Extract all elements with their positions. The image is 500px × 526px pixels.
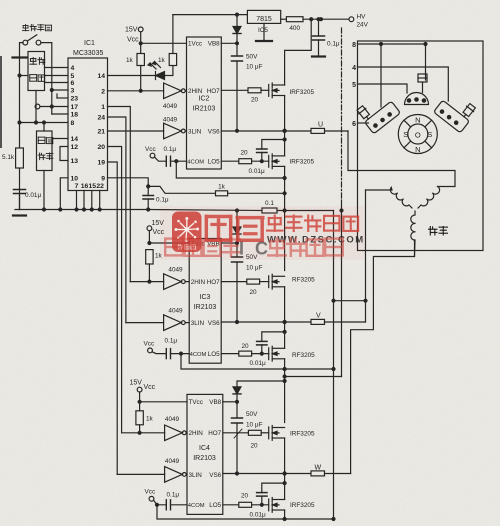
wire 4COM Vcc entry IC3 xyxy=(148,348,190,359)
svg-text:23: 23 xyxy=(71,96,79,103)
long vertical wire pin1 xyxy=(108,107,131,282)
motor enclosure box xyxy=(358,41,484,251)
svg-text:IC4: IC4 xyxy=(199,445,210,452)
svg-text:1k: 1k xyxy=(218,184,226,191)
svg-text:IR2103: IR2103 xyxy=(193,455,216,462)
watermark 电子市场网 xyxy=(266,215,359,233)
IC2 IR2103 body xyxy=(187,37,222,169)
svg-text:13: 13 xyxy=(71,158,79,165)
wire to inverter F xyxy=(117,473,164,475)
svg-text:1k: 1k xyxy=(158,57,166,64)
ground symbol xyxy=(13,214,26,216)
svg-text:10: 10 xyxy=(71,175,79,182)
svg-text:6: 6 xyxy=(352,121,356,128)
diode bootstrap IC4 xyxy=(233,380,286,402)
svg-text:19: 19 xyxy=(97,160,105,167)
svg-text:0.1μ: 0.1μ xyxy=(327,41,340,48)
svg-text:5: 5 xyxy=(352,82,356,89)
capacitor 0.01u (W low gate) xyxy=(257,482,287,505)
svg-text:Vcc: Vcc xyxy=(145,146,156,153)
wire V lower rail xyxy=(283,375,341,378)
node 15V Vcc terminal mid xyxy=(147,226,152,245)
svg-text:14: 14 xyxy=(97,73,105,80)
svg-text:24V: 24V xyxy=(357,22,369,29)
rotor magnet xyxy=(398,115,437,154)
wire V column xyxy=(284,287,286,423)
svg-text:N: N xyxy=(415,116,420,125)
watermark logo box xyxy=(172,212,202,253)
svg-text:VB8: VB8 xyxy=(209,399,221,406)
IC3 pin labels xyxy=(190,241,207,359)
wire to inverter E xyxy=(122,432,165,434)
svg-text:14: 14 xyxy=(71,136,79,143)
node V with series link xyxy=(285,319,366,324)
svg-text:20: 20 xyxy=(241,493,249,500)
svg-text:N: N xyxy=(415,145,420,154)
svg-text:IRF3205: IRF3205 xyxy=(290,502,315,509)
capacitor bootstrap 10uF 50V IC4 xyxy=(232,402,243,475)
wire 4COM Vcc entry IC4 xyxy=(149,496,187,509)
wire source rail W (bottom) xyxy=(157,505,335,521)
svg-text:VS6: VS6 xyxy=(208,320,220,327)
svg-text:TVcc: TVcc xyxy=(189,399,203,406)
inverter 4049 E xyxy=(165,425,187,441)
svg-text:15: 15 xyxy=(89,183,97,190)
transistor Q5 IRF3205 W-high xyxy=(269,426,285,441)
svg-text:2HIN: 2HIN xyxy=(191,279,206,286)
wire VBB IC3 xyxy=(221,242,238,245)
wire throttle top xyxy=(43,121,46,131)
svg-text:2HIN: 2HIN xyxy=(188,88,203,95)
wire pin10 to ground rail xyxy=(59,178,68,211)
svg-text:24: 24 xyxy=(97,115,105,122)
svg-text:4049: 4049 xyxy=(163,117,178,124)
svg-text:Vcc: Vcc xyxy=(127,37,139,44)
svg-text:IC1: IC1 xyxy=(84,40,95,47)
svg-text:3LIN: 3LIN xyxy=(189,472,203,479)
svg-text:4049: 4049 xyxy=(168,308,183,315)
svg-text:RF3205: RF3205 xyxy=(292,277,315,284)
wire VS6 IC3 to V node xyxy=(221,320,286,323)
svg-text:MC33035: MC33035 xyxy=(73,50,103,57)
svg-text:LO5: LO5 xyxy=(208,351,220,358)
svg-text:2: 2 xyxy=(101,88,105,95)
svg-text:20: 20 xyxy=(250,443,258,450)
hall sensor left xyxy=(356,90,401,134)
inverter 4049 B xyxy=(164,123,187,139)
svg-text:400: 400 xyxy=(289,25,300,32)
watermark 全球最大 IC 采购网站 xyxy=(164,237,344,259)
hall feed rail 8 xyxy=(358,43,428,108)
wire VB8 xyxy=(221,42,238,45)
svg-text:IR2103: IR2103 xyxy=(194,304,217,311)
svg-text:IC3: IC3 xyxy=(200,294,211,301)
svg-text:VS6: VS6 xyxy=(209,472,221,479)
wire U-low drain/source column xyxy=(284,131,286,271)
svg-text:RF3205: RF3205 xyxy=(292,352,315,359)
resistor 5.1k xyxy=(16,148,24,168)
wire Vcc rail IC4 xyxy=(140,401,187,403)
svg-text:8: 8 xyxy=(71,120,75,127)
wire LO5 IC4 xyxy=(223,504,239,506)
wire LO5 to gate resistor xyxy=(221,160,239,162)
riser W phase xyxy=(351,240,415,474)
wire Vcc rail IC3 xyxy=(149,242,189,244)
wire W column xyxy=(284,438,286,519)
wire U-high drain to HV rail xyxy=(285,19,312,85)
riser V to winding xyxy=(364,190,367,322)
node 15V Vcc terminal top xyxy=(138,27,143,45)
hall net labels 8 4 5 6 xyxy=(352,42,356,128)
svg-text:4049: 4049 xyxy=(163,103,178,110)
svg-text:0.1μ: 0.1μ xyxy=(167,492,180,499)
svg-text:V: V xyxy=(316,313,321,320)
svg-text:1k: 1k xyxy=(146,416,154,423)
wire throttle to pin14 xyxy=(52,138,68,140)
svg-text:17: 17 xyxy=(71,104,79,111)
svg-text:VB8: VB8 xyxy=(208,41,220,48)
ground rail bottom-left xyxy=(15,209,148,211)
capacitor 0.01u (V low gate) xyxy=(257,330,287,353)
transistor Q3 IRF3205 V-high xyxy=(269,274,285,289)
inverter 4049 C xyxy=(164,274,190,290)
svg-text:2HIN: 2HIN xyxy=(189,430,204,437)
wire LO5 IC3 xyxy=(221,353,239,355)
IC1 bottom pin drops 7 16 15 22 xyxy=(75,191,101,212)
wire 4COM Vcc entry IC2 xyxy=(150,153,186,166)
svg-text:3LIN: 3LIN xyxy=(191,320,205,327)
resistor 20 (W high gate) xyxy=(248,430,268,435)
IC3 IR2103 body xyxy=(189,239,221,364)
svg-text:21: 21 xyxy=(97,129,105,136)
wire HO7 IC4 xyxy=(223,429,249,438)
IC1 pin numbers left xyxy=(71,65,79,182)
wire U-high source to U node xyxy=(284,96,286,131)
motor winding Y xyxy=(366,187,440,257)
wire hall box left lead xyxy=(18,74,28,77)
label 制动刹车 xyxy=(22,24,52,31)
svg-text:Vcc: Vcc xyxy=(144,341,155,348)
svg-text:HO7: HO7 xyxy=(208,430,221,437)
resistor 1k (LED) xyxy=(169,15,176,76)
label 电机霍尔 in box xyxy=(29,57,45,82)
IC1 pin numbers right xyxy=(97,73,105,182)
svg-text:0.01μ: 0.01μ xyxy=(25,192,41,199)
wire pin14(right) to LED xyxy=(108,75,156,77)
LED D1 xyxy=(148,62,173,80)
svg-text:4049: 4049 xyxy=(165,458,180,465)
svg-text:HO7: HO7 xyxy=(207,279,220,286)
svg-text:0.1μ: 0.1μ xyxy=(165,338,178,345)
wire pin3 stub xyxy=(50,89,68,92)
svg-text:4COM: 4COM xyxy=(188,503,205,509)
motor hall box 电机霍尔 xyxy=(28,52,45,91)
wire source rail U xyxy=(176,161,286,179)
svg-text:4049: 4049 xyxy=(168,267,183,274)
capacitor 0.01u (U low gate) xyxy=(257,138,287,161)
wire to inverter C xyxy=(130,281,163,283)
node pin17 terminal xyxy=(35,104,68,109)
svg-text:0.1μ: 0.1μ xyxy=(156,197,169,204)
node HV 24V terminal xyxy=(349,17,354,22)
wire throttle bottom to ground rail xyxy=(43,171,46,212)
wire pin21 to inverter xyxy=(108,130,164,132)
svg-text:1: 1 xyxy=(101,104,105,111)
svg-text:20: 20 xyxy=(241,343,249,350)
resistor 20 (V low gate) xyxy=(239,351,269,356)
diode bootstrap IC3 xyxy=(233,209,241,243)
node U with series link xyxy=(285,128,348,133)
transistor Q4 IRF3205 V-low xyxy=(269,346,285,361)
svg-text:U: U xyxy=(318,122,323,129)
hall sensor middle xyxy=(405,72,429,105)
riser V-return xyxy=(340,200,343,377)
wire source rail V xyxy=(181,354,335,371)
IC4 pin labels xyxy=(188,399,205,509)
svg-text:IRF3205: IRF3205 xyxy=(290,89,315,96)
svg-text:HO7: HO7 xyxy=(207,88,220,95)
svg-text:5: 5 xyxy=(71,73,75,80)
svg-text:S: S xyxy=(403,130,408,139)
svg-text:0.01μ: 0.01μ xyxy=(250,512,266,519)
svg-text:0.1μ: 0.1μ xyxy=(164,146,177,153)
wire HO7 to gate resistor xyxy=(221,89,248,91)
regulator 7815 IC5 xyxy=(247,10,280,23)
wire U jog to motor xyxy=(348,131,455,187)
svg-text:9: 9 xyxy=(101,175,105,182)
node W with series link xyxy=(285,471,351,476)
wires hall box to pins 4,5,6 xyxy=(45,68,69,83)
label 马达 motor xyxy=(428,226,448,236)
svg-text:IC5: IC5 xyxy=(258,27,268,34)
svg-text:4COM: 4COM xyxy=(190,352,207,358)
resistor 400 xyxy=(281,17,349,22)
svg-text:20: 20 xyxy=(249,289,257,296)
wire pin23 stub xyxy=(57,94,68,98)
wire pin8 xyxy=(18,121,68,124)
wire pin2 to inverter xyxy=(108,90,164,92)
wire VS6 to U node xyxy=(221,129,286,132)
long vertical wire pin19 xyxy=(108,162,118,474)
rotor pole labels N S O S N xyxy=(403,116,432,155)
resistor 20 (W low gate) xyxy=(239,502,269,507)
svg-text:Vcc: Vcc xyxy=(145,489,156,496)
resistor 1k (IC4 pullup) xyxy=(136,402,143,435)
svg-text:3: 3 xyxy=(71,88,75,95)
capacitor 0.01u left xyxy=(14,190,26,210)
svg-text:Vcc: Vcc xyxy=(144,384,156,391)
svg-text:22: 22 xyxy=(96,183,104,190)
svg-text:1Vcc: 1Vcc xyxy=(188,41,202,48)
long vertical wire pin24 xyxy=(108,117,126,323)
resistor 1k (IC3 pullup) xyxy=(146,250,153,284)
ground bar top-left xyxy=(13,56,28,58)
wire Vcc rail IC2 xyxy=(141,42,187,44)
svg-text:IRF3205: IRF3205 xyxy=(290,159,315,166)
ground stub IC5 xyxy=(256,23,272,41)
riser left of corridor xyxy=(333,211,335,520)
svg-text:W: W xyxy=(315,465,322,472)
capacitor 0.1u (HV rail) xyxy=(312,18,325,57)
svg-text:IC2: IC2 xyxy=(199,96,210,103)
svg-text:4: 4 xyxy=(71,65,75,72)
wire VBB IC4 xyxy=(223,400,239,403)
svg-text:15V: 15V xyxy=(125,27,138,34)
wire link 300.7 xyxy=(332,299,366,302)
resistor 20 (U high gate) xyxy=(248,88,269,93)
node 15V Vcc terminal bottom xyxy=(137,387,142,403)
svg-text:10 μF: 10 μF xyxy=(246,64,263,71)
svg-text:50V: 50V xyxy=(246,54,258,61)
wire VS6 IC4 to W node xyxy=(223,472,286,475)
IC1 pin numbers bottom 7 16 15 22 xyxy=(75,183,105,190)
svg-text:8: 8 xyxy=(352,42,356,49)
scan edge artifact left xyxy=(0,56,2,148)
watermark wash band xyxy=(160,206,365,260)
svg-text:O: O xyxy=(415,131,421,140)
brake switch SW xyxy=(23,35,41,45)
svg-text:LO5: LO5 xyxy=(208,159,220,166)
resistor 1k (pin9 series) xyxy=(216,191,287,196)
IC2 pin labels xyxy=(187,41,204,166)
inverter 4049 F xyxy=(165,467,187,483)
watermark 维库 xyxy=(205,215,265,242)
svg-text:10 μF: 10 μF xyxy=(246,265,263,272)
wire pin18 xyxy=(52,113,68,115)
svg-text:HV: HV xyxy=(357,14,367,21)
svg-text:4COM: 4COM xyxy=(187,160,204,166)
svg-text:0.1: 0.1 xyxy=(265,200,274,207)
15V rail from regulator xyxy=(173,14,248,16)
jumper bracket pins 12-13 xyxy=(60,147,68,161)
resistor 20 (U low gate) xyxy=(239,159,269,164)
svg-text:LO5: LO5 xyxy=(209,502,221,509)
transistor Q6 IRF3205 W-low xyxy=(269,498,285,513)
svg-text:20: 20 xyxy=(97,144,105,151)
inverter 4049 A xyxy=(164,83,187,99)
svg-text:S: S xyxy=(427,130,432,139)
svg-text:IRF3205: IRF3205 xyxy=(290,431,315,438)
svg-text:0.01μ: 0.01μ xyxy=(250,360,266,367)
capacitor 0.1u (pin9) xyxy=(143,186,154,211)
svg-text:4049: 4049 xyxy=(165,416,180,423)
IC1 MC33035 body xyxy=(68,58,108,191)
svg-text:I C: I C xyxy=(239,239,271,259)
svg-text:16: 16 xyxy=(81,183,89,190)
svg-text:VS6: VS6 xyxy=(208,128,220,135)
svg-text:6: 6 xyxy=(71,80,75,87)
svg-text:7815: 7815 xyxy=(256,16,272,23)
wire to inverter D xyxy=(126,322,164,324)
svg-text:18: 18 xyxy=(71,112,79,119)
svg-text:12: 12 xyxy=(71,144,79,151)
capacitor bootstrap 10uF 50V IC3 xyxy=(232,243,243,324)
shunt rail with 0.1 resistor xyxy=(148,208,333,213)
hall wire 4 xyxy=(358,67,449,101)
wire switch right to pin3 vertical xyxy=(41,43,52,114)
resistor 1k (pullup pin2 line) xyxy=(137,43,144,92)
capacitor bootstrap 10uF 50V IC2 xyxy=(232,43,243,132)
wire HO7 IC3 xyxy=(221,281,247,283)
svg-text:5.1k: 5.1k xyxy=(2,154,15,161)
svg-text:20: 20 xyxy=(240,150,248,157)
svg-text:1k: 1k xyxy=(126,57,134,64)
wire pin9 net xyxy=(108,178,216,194)
inverter 4049 D xyxy=(164,315,190,331)
hall wire 5 xyxy=(358,84,408,93)
diode bootstrap IC2 xyxy=(233,13,241,43)
hall wire 6 xyxy=(358,122,369,124)
svg-text:3LIN: 3LIN xyxy=(188,128,202,135)
svg-text:IR2103: IR2103 xyxy=(193,106,216,113)
IC4 IR2103 body xyxy=(187,394,223,514)
svg-text:50V: 50V xyxy=(246,411,258,418)
svg-text:0.01μ: 0.01μ xyxy=(249,168,265,175)
svg-text:15V: 15V xyxy=(130,380,143,387)
svg-text:20: 20 xyxy=(251,97,259,104)
label 霍尔转把 in box xyxy=(38,137,54,160)
resistor 20 (V high gate) xyxy=(247,279,269,284)
svg-text:7: 7 xyxy=(75,183,79,190)
transistor Q2 IRF3205 U-low xyxy=(269,154,285,169)
transistor Q1 IRF3205 U-high xyxy=(269,83,285,98)
wire switch left to ground and down xyxy=(20,43,24,210)
hall sensor right xyxy=(433,89,478,133)
throttle box 霍尔转把 xyxy=(37,131,53,171)
wire hall box bottom drop to pin8 line xyxy=(35,91,38,125)
svg-text:10 μF: 10 μF xyxy=(246,422,263,429)
svg-text:4: 4 xyxy=(352,65,356,72)
boundary dash-dot line xyxy=(341,28,343,200)
long vertical wire pin20 xyxy=(108,147,122,433)
